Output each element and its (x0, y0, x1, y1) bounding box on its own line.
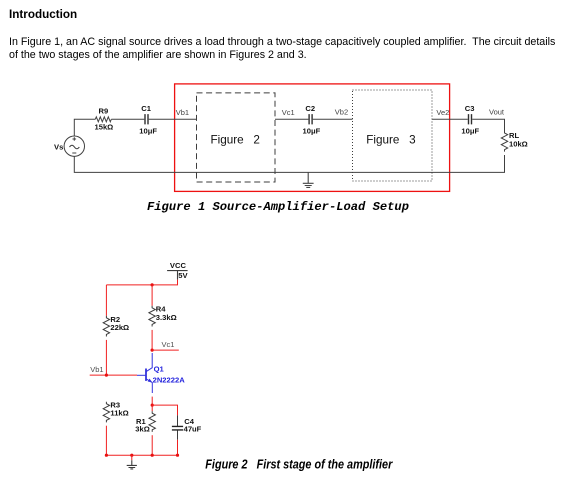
wire: R2 top (105, 285, 107, 316)
resistor R9 (95, 117, 111, 122)
resistor R3 (103, 402, 109, 423)
svg-text:10μF: 10μF (303, 127, 321, 136)
wire: R2 bottom to Vb1 node (105, 340, 107, 375)
svg-text:Vb2: Vb2 (335, 108, 348, 117)
svg-text:10μF: 10μF (139, 127, 157, 136)
svg-text:C2: C2 (305, 104, 315, 113)
resistor RL (501, 131, 507, 152)
svg-text:Vs: Vs (54, 142, 63, 151)
capacitor C4 (177, 415, 179, 439)
wire: C1 to Figure 2 block (149, 118, 197, 120)
wire: C4 bottom (177, 440, 179, 455)
resistor R2 (103, 316, 109, 337)
svg-text:Figure 1 Source-Amplifier-Loa: Figure 1 Source-Amplifier-Load Setup (147, 200, 409, 214)
svg-text:5V: 5V (178, 271, 188, 280)
svg-text:R9: R9 (99, 107, 109, 116)
svg-text:11kΩ: 11kΩ (110, 408, 128, 417)
Q1 emitter arrow (148, 379, 153, 383)
ground (Figure 2) (127, 460, 137, 469)
svg-text:Vb1: Vb1 (176, 108, 189, 117)
wire: R4 to Vc1 node (151, 330, 153, 350)
wire: emitter to junction (151, 397, 153, 406)
wire: Vc1 stub (152, 349, 179, 351)
svg-text:Figure 2: Figure 2 (211, 133, 260, 146)
capacitor C2 (309, 114, 312, 124)
Figure 3 block (dotted) (353, 90, 433, 181)
svg-text:3.3kΩ: 3.3kΩ (156, 313, 177, 322)
junction rail C4 (176, 454, 179, 457)
wire: Figure 2 block to C2 (275, 118, 308, 120)
AC source Vs (64, 136, 84, 156)
power symbol VCC (167, 271, 188, 280)
red highlight box around two-stage amplifier (175, 84, 450, 191)
svg-text:22kΩ: 22kΩ (110, 323, 129, 332)
transistor Q1 (137, 353, 152, 393)
svg-text:3kΩ: 3kΩ (135, 424, 150, 433)
wire: RL down and bottom return to Vs (74, 155, 504, 172)
wire: ground stem (131, 455, 133, 460)
junction at emitter node (151, 404, 154, 407)
svg-text:10μF: 10μF (461, 127, 479, 136)
svg-text:C3: C3 (465, 104, 475, 113)
capacitor C1 (145, 114, 148, 124)
wire: Vs top to R9 (74, 119, 95, 136)
ground (Figure 1) (303, 172, 314, 187)
svg-text:Ve2: Ve2 (436, 108, 449, 117)
svg-text:Figure 3: Figure 3 (366, 133, 415, 146)
svg-text:15kΩ: 15kΩ (95, 123, 114, 132)
wire: ground rail (Figure 2) (106, 454, 177, 456)
svg-text:VCC: VCC (170, 261, 187, 270)
resistor R4 (149, 306, 155, 327)
wire: emitter node to R1 (151, 405, 153, 411)
wire: R1 bottom (151, 435, 153, 455)
wire: R3 bottom (105, 426, 107, 456)
svg-text:10kΩ: 10kΩ (509, 139, 528, 148)
junction rail ground (130, 454, 133, 457)
wire: Vb1 input stub (90, 374, 137, 376)
svg-text:Figure 2 First stage of the: Figure 2 First stage of the amplifier (205, 456, 393, 471)
junction rail R1 (151, 454, 154, 457)
node Vc1 junction (151, 349, 154, 352)
svg-text:Vout: Vout (489, 108, 505, 117)
junction at Vb1 (105, 374, 108, 377)
svg-text:Q1: Q1 (154, 365, 165, 374)
svg-text:47uF: 47uF (184, 424, 202, 433)
svg-text:2N2222A: 2N2222A (153, 376, 186, 385)
Figure 2 block (dashed) (197, 93, 276, 182)
junction at VCC rail (151, 283, 154, 286)
wire: Figure 3 block to C3 (432, 118, 468, 120)
wire: rail to R4 (151, 285, 153, 306)
capacitor C3 (469, 114, 472, 124)
svg-text:Vc1: Vc1 (282, 108, 295, 117)
wire: emitter node to C4 branch (152, 405, 177, 415)
resistor R1 (149, 411, 155, 432)
wire: VCC to rail (106, 280, 177, 285)
svg-text:C1: C1 (141, 104, 151, 113)
wire: C3 to load (472, 119, 504, 131)
wire: R9 to C1 (111, 118, 144, 120)
svg-text:Vc1: Vc1 (162, 340, 175, 349)
junction rail left (105, 454, 108, 457)
svg-text:Vb1: Vb1 (90, 365, 103, 374)
wire: C2 to Figure 3 block (313, 118, 353, 120)
